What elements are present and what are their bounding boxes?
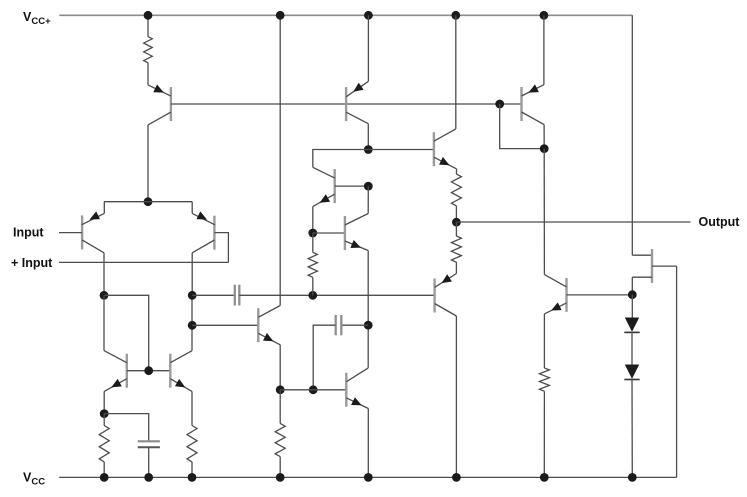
node Q6 emitter / base bus: [276, 385, 285, 394]
wire Q6 collector to Vcc+: [279, 15, 281, 305]
wire Input lead: [59, 232, 82, 234]
transistor Q10: [346, 368, 368, 409]
svg-text:Input: Input: [13, 226, 44, 240]
wire Q6 emitter: [279, 345, 281, 390]
wire node to Q8 collector: [313, 150, 369, 168]
wire Q7 collector: [367, 124, 369, 150]
resistor R8: [187, 426, 197, 478]
wire Q4 base-Q5 base: [127, 370, 171, 372]
wire diode stem 1: [631, 295, 633, 318]
resistor R2: [451, 169, 461, 222]
node R8 ground: [188, 473, 197, 482]
wire Q12 collector: [455, 316, 457, 477]
node Q6 collector rail: [276, 11, 285, 20]
wire output lead: [456, 221, 690, 223]
resistor R6: [539, 368, 549, 477]
node tail: [144, 197, 153, 206]
node mirror bases: [144, 366, 153, 375]
transistor Q5: [170, 351, 192, 392]
resistor R7: [99, 414, 109, 478]
node Q7 collector / Q11 base: [364, 145, 373, 154]
wire Q13 emitter: [543, 15, 545, 84]
transistor Q3: [192, 202, 215, 253]
node Q2 collector / mirror tie: [100, 291, 109, 300]
node bias bus / Q13 base: [495, 100, 504, 109]
diode D2: [624, 365, 639, 380]
wire Q4 emitter: [103, 391, 105, 413]
node Q3 collector / Q6 base: [188, 321, 197, 330]
node Q11 collector rail: [451, 11, 460, 20]
wire Q15 lower lead: [631, 277, 633, 295]
wire Q13 collector: [543, 125, 545, 149]
wire Q5 collector: [191, 295, 193, 350]
resistor R3: [451, 222, 461, 273]
wire mirror diode tie: [104, 295, 149, 370]
svg-text:+ Input: + Input: [11, 256, 53, 270]
node Q8 base / Q9 collector: [364, 182, 373, 191]
wire Q4 collector: [103, 295, 105, 350]
transistor Q11: [434, 129, 457, 169]
wire Q1 collector to diff pair: [147, 125, 149, 202]
node Q3 collector / C1: [188, 291, 197, 300]
svg-text:VCC+: VCC+: [23, 10, 51, 27]
node C3 ground: [144, 473, 153, 482]
transistor Q9: [345, 214, 368, 251]
node R5 ground: [276, 473, 285, 482]
node C2 / Q10 base: [309, 385, 318, 394]
svg-text:VCC: VCC: [23, 471, 45, 488]
label Vcc+: [23, 10, 51, 27]
node Q13 collector / Q14 collector: [540, 144, 549, 153]
transistor Q6: [258, 306, 280, 345]
wire tail left: [104, 201, 148, 203]
wire base bus: [171, 103, 522, 105]
label +Input: [11, 256, 53, 270]
node diode top: [628, 290, 637, 299]
capacitor C1: [235, 285, 240, 306]
wire Vcc+ rail: [59, 14, 632, 16]
capacitor C3: [104, 414, 160, 478]
wire diode stem 2: [631, 332, 633, 364]
wire Q2 collector: [103, 253, 105, 295]
transistor Q1: [148, 85, 171, 125]
node R6 ground: [540, 473, 549, 482]
node R1 rail: [144, 11, 153, 20]
wire Q9 base lead: [313, 232, 345, 234]
wire Vcc- rail: [59, 476, 676, 478]
wire Q9 emitter chain: [367, 251, 369, 368]
transistor Q13: [522, 84, 545, 124]
diode D1: [624, 318, 639, 333]
wire C1 left lead: [192, 294, 235, 296]
node R7 ground: [100, 473, 109, 482]
svg-text:Output: Output: [699, 215, 741, 229]
label Vcc-: [23, 471, 45, 488]
node Q7 emitter rail: [364, 11, 373, 20]
transistor Q12: [435, 274, 457, 317]
wire Q13 base-collector tie: [500, 104, 545, 149]
wire Q11 collector: [455, 15, 457, 129]
node Q12 collector ground: [452, 473, 461, 482]
label Input: [13, 226, 44, 240]
transistor Q15: [632, 249, 676, 283]
wire Q14 emitter: [543, 314, 545, 368]
node diode ground: [628, 473, 637, 482]
capacitor C2: [313, 315, 368, 390]
wire Q10 base bus: [280, 389, 346, 391]
node Q10 emitter ground: [364, 473, 373, 482]
wire Q6 base lead: [192, 324, 258, 326]
wire Q15 source drop: [676, 266, 678, 477]
wire Q8 emitter: [312, 207, 314, 233]
node output: [452, 218, 461, 227]
wire Q8 base lead: [335, 185, 369, 187]
wire Q14 collector riser: [543, 149, 545, 275]
node C2 tap: [364, 321, 373, 330]
transistor Q8: [313, 167, 335, 206]
wire tail right: [148, 201, 192, 203]
wire node to Q11 base: [368, 149, 434, 151]
node Q13 emitter rail: [540, 11, 549, 20]
transistor Q14: [544, 275, 566, 314]
transistor Q2: [82, 202, 105, 253]
wire Q3 collector: [191, 253, 193, 295]
resistor R1: [144, 15, 153, 85]
node Q4 emitter / C3 tap: [100, 409, 109, 418]
node R4 / bus: [308, 291, 317, 300]
wire Vcc+ corner drop: [631, 15, 633, 255]
node Q8 emitter / Q9 base: [308, 229, 317, 238]
resistor R4: [308, 233, 317, 295]
transistor Q4: [104, 351, 127, 392]
wire Q9 collector: [367, 186, 369, 213]
wire Q5 emitter: [191, 391, 193, 425]
transistor Q7: [346, 81, 368, 123]
resistor R5: [275, 390, 285, 478]
wire Q10 emitter: [367, 409, 369, 478]
wire Q3 base lead: [214, 233, 228, 263]
label Output: [699, 215, 741, 229]
wire Q14 base lead: [567, 294, 633, 296]
wire diode stem 3: [631, 380, 633, 478]
wire Q7 emitter: [367, 15, 369, 81]
wire bus to Q12 base: [239, 294, 434, 296]
wire +Input lead: [59, 261, 228, 263]
